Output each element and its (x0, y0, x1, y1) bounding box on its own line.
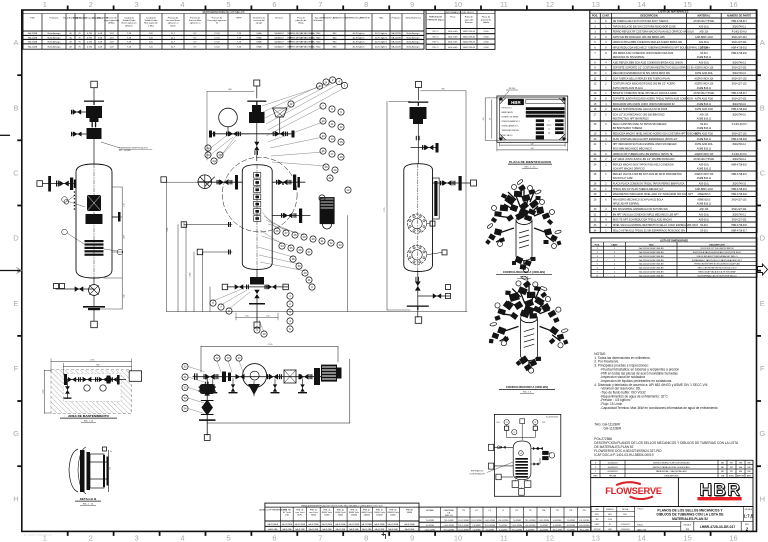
svg-text:11: 11 (500, 0, 508, 9)
svg-text:GA-11-2BE: GA-11-2BE (362, 528, 372, 531)
svg-text:P-1401-03-HU: P-1401-03-HU (732, 124, 747, 126)
svg-text:39: 39 (297, 264, 301, 268)
svg-text:GA-11-2BE: GA-11-2BE (309, 528, 319, 531)
svg-text:19: 19 (324, 165, 328, 169)
svg-text:INOX B8M MECANICO MECANICO: INOX B8M MECANICO MECANICO (613, 147, 652, 150)
svg-text:PERNO ASTM REFLEX BOLA REDUCID: PERNO ASTM REFLEX BOLA REDUCIDA PLAN (694, 263, 740, 266)
svg-text:POS.: POS. (595, 244, 601, 246)
svg-text:NUMERO: NUMERO (606, 509, 615, 511)
svg-text:CANT.: CANT. (611, 243, 618, 246)
svg-text:REFRIGERADORES DE LOS SELLOS: REFRIGERADORES DE LOS SELLOS (203, 11, 245, 14)
svg-text:ICAF DOC.#:P-1401-03-HU-38504-: ICAF DOC.#:P-1401-03-HU-38504-00019 (594, 453, 653, 457)
svg-text:DN15 80S 1/2" 300 UNION TAPON: DN15 80S 1/2" 300 UNION TAPON (701, 247, 734, 250)
svg-text:SUB41.: SUB41. (637, 524, 644, 526)
svg-text:EMITIDO BUENO Y APO DE DETALLE: EMITIDO BUENO Y APO DE DETALLES (653, 462, 690, 465)
svg-text:MECANICO ESPARRAGO 90 SIN JUNT: MECANICO ESPARRAGO 90 SIN JUNTA DN15 WN (613, 72, 670, 75)
svg-text:ASTM UNION A182 PLACA: ASTM UNION A182 PLACA (613, 87, 644, 90)
svg-text:17/04/2024: 17/04/2024 (621, 524, 630, 526)
svg-text:40000: 40000 (390, 515, 395, 517)
HBR logo on plate (508, 99, 524, 105)
svg-text:ESC. 1:5: ESC. 1:5 (523, 392, 532, 394)
svg-text:-Capacidad Termica: Max 3kW en: -Capacidad Termica: Max 3kW en condicion… (600, 406, 718, 410)
svg-text:TKL-1-32980: TKL-1-32980 (525, 520, 536, 522)
svg-text:40-70 kgf/cm: 40-70 kgf/cm (352, 33, 364, 35)
svg-text:E: E (760, 299, 765, 308)
svg-text:H: H (13, 494, 18, 503)
top field box (526, 99, 565, 103)
svg-text:carcasa del: carcasa del (253, 19, 265, 22)
left tag square 1 (488, 444, 493, 450)
svg-text:GA-1112B: GA-1112B (391, 41, 401, 44)
svg-text:ESC. 1:10: ESC. 1:10 (84, 421, 94, 423)
svg-text:6: 6 (272, 534, 276, 542)
svg-text:4-3-32980: 4-3-32980 (426, 525, 434, 527)
manifold left end cap (209, 131, 212, 138)
svg-text:AISI 316: AISI 316 (699, 113, 709, 116)
svg-text:3: 3 (135, 534, 139, 542)
svg-text:3 160: 3 160 (483, 47, 489, 49)
svg-text:GA-1112-B/1-B AT 300LBS: GA-1112-B/1-B AT 300LBS (639, 263, 664, 266)
svg-text:INOX TE NPT SCH REDUCIDA TP316: INOX TE NPT SCH REDUCIDA TP316L A182 MAC… (613, 219, 672, 222)
svg-text:ASME B16.11: ASME B16.11 (697, 177, 712, 180)
svg-text:ESPARRAGO TAPON SELLO VALVULA: ESPARRAGO TAPON SELLO VALVULA ACERO NPT (692, 259, 743, 262)
table: lista de dimensiones (591, 238, 757, 277)
horizontal pump train assembly (182, 344, 350, 440)
svg-text:17,24: 17,24 (214, 47, 220, 49)
svg-text:0,735: 0,735 (87, 42, 93, 44)
svg-text:HBR-4728-017: HBR-4728-017 (731, 93, 747, 95)
inner white work zone (63, 373, 121, 401)
table: datos de sellos (bottom middle) (419, 507, 591, 531)
svg-text:2: 2 (89, 0, 93, 9)
svg-text:4-3-32980: 4-3-32980 (486, 530, 494, 532)
left column small bars (536, 119, 544, 122)
svg-text:ASTM A182 F316: ASTM A182 F316 (695, 133, 714, 136)
svg-text:Presion de: Presion de (212, 17, 223, 20)
left edge section cut line (0, 270, 21, 272)
svg-text:SS-316: SS-316 (700, 225, 708, 227)
svg-text:CONFIGURACION A (300LBS): CONFIGURACION A (300LBS) (506, 385, 548, 389)
svg-text:GML: GML (623, 514, 627, 516)
svg-text:GA82. P4B: GA82. P4B (637, 528, 647, 531)
instrument PI left (504, 420, 509, 425)
svg-text:30242749-33: 30242749-33 (732, 184, 746, 186)
svg-text:34: 34 (280, 244, 284, 248)
drop to vessel (256, 103, 258, 161)
tag block (594, 423, 622, 431)
side branch 2 (72, 133, 86, 135)
svg-text:MATERIALES-PLAN 52: MATERIALES-PLAN 52 (672, 517, 708, 521)
left dimension line (386, 101, 388, 310)
pressure gauge PG (219, 108, 238, 127)
side nozzle right (433, 182, 471, 184)
svg-text:OH2b: OH2b (256, 42, 262, 44)
svg-text:RESTRICTIVO NPT 8M REFLEX: RESTRICTIVO NPT 8M REFLEX (613, 118, 649, 121)
vessel assembly 3 (tall seal pot) (384, 82, 477, 324)
svg-text:A Norm: A Norm (125, 24, 132, 27)
svg-text:1 345: 1 345 (189, 273, 191, 278)
svg-text:Buscteo: Buscteo (465, 21, 474, 24)
svg-text:PERNO REFLEX RF COSTURA MACHO: PERNO REFLEX RF COSTURA MACHO PLAN A312 … (613, 31, 694, 34)
inline valves (205, 374, 215, 380)
svg-text:HBR-4728-002: HBR-4728-002 (731, 194, 747, 196)
three wide bars (526, 107, 565, 110)
svg-text:MATERIAL: MATERIAL (698, 14, 711, 17)
svg-text:SELLO ASTM TAPON INOX BOLA COD: SELLO ASTM TAPON INOX BOLA CODO (698, 267, 737, 270)
svg-text:C: C (760, 169, 766, 178)
svg-text:7: 7 (318, 534, 322, 542)
svg-text:B: B (13, 103, 18, 112)
svg-text:31: 31 (320, 239, 324, 243)
svg-text:30242749-12: 30242749-12 (732, 159, 746, 161)
svg-text:13: 13 (592, 534, 600, 542)
svg-text:40-70 kgf/cm: 40-70 kgf/cm (375, 42, 387, 44)
internal valve (86, 214, 103, 224)
svg-text:ASME B16.11: ASME B16.11 (697, 168, 712, 171)
svg-text:L14-1-32980: L14-1-32980 (458, 530, 468, 532)
svg-text:I-HBR-4728-33-DE-017: I-HBR-4728-33-DE-017 (700, 525, 736, 529)
internal level column (254, 173, 261, 222)
svg-text:GA-1112-B/1-B AT 300LBS: GA-1112-B/1-B AT 300LBS (639, 274, 664, 277)
svg-text:PLACA PLACA CONEXION TP316L TA: PLACA PLACA CONEXION TP316L TAPON PERNO … (613, 183, 685, 186)
svg-text:COSTURA INOX INDICADOR DN15 30: COSTURA INOX INDICADOR DN15 300 8M 1/2" … (613, 83, 676, 86)
side valve branch left (72, 111, 86, 113)
svg-text:ESC. 1 : 10: ESC. 1 : 10 (83, 504, 94, 506)
svg-text:TKL-1-0985: TKL-1-0985 (552, 530, 562, 532)
svg-text:GA-1112B: GA-1112B (28, 36, 38, 39)
svg-text:1: 1 (43, 0, 47, 9)
svg-text:SELLO A182 80S NIVEL 52 TAPON: SELLO A182 80S NIVEL 52 TAPON SIN REFLEX (613, 123, 667, 126)
svg-text:4-3-32980: 4-3-32980 (553, 525, 561, 527)
bottom valve stack (417, 272, 419, 306)
svg-text:D: D (13, 234, 19, 243)
svg-text:140000: 140000 (376, 515, 382, 517)
vessel V-3 shell (404, 164, 433, 272)
vessel V-1 shell (76, 164, 112, 278)
item circle 1 (62, 197, 68, 203)
callout balloons diagram 2 (205, 77, 351, 337)
svg-text:ORIFICIO BOLA B8M CONEXION REF: ORIFICIO BOLA B8M CONEXION REFLEX ACERO … (613, 41, 683, 44)
svg-text:H: H (760, 494, 765, 503)
bottom fold mark (382, 532, 386, 539)
svg-text:30242749-01: 30242749-01 (732, 104, 746, 106)
svg-text:HBR-4728-002: HBR-4728-002 (731, 225, 747, 227)
svg-text:860: 860 (96, 364, 99, 366)
svg-text:vapor agitacion: vapor agitacion (104, 19, 120, 22)
svg-text:GA-1112B: GA-1112B (391, 32, 401, 35)
svg-text:14: 14 (237, 356, 241, 360)
svg-text:FABRICANTE: FABRICANTE (502, 111, 514, 114)
svg-text:40-70 kgf/cm: 40-70 kgf/cm (352, 47, 364, 49)
svg-text:MD: MD (721, 467, 725, 469)
left tag square 2 (488, 463, 493, 469)
svg-text:HBR-4728-002: HBR-4728-002 (731, 109, 747, 111)
left tap square 1 (181, 222, 187, 228)
svg-text:TKL-1-0985: TKL-1-0985 (444, 520, 454, 522)
svg-text:GA-11-2B0E: GA-11-2B0E (374, 523, 385, 526)
svg-text:TKL-1-0985: TKL-1-0985 (579, 530, 589, 532)
svg-text:GA-11-2B0E: GA-11-2B0E (404, 523, 415, 526)
svg-text:GA-11-2B0E: GA-11-2B0E (295, 523, 306, 526)
svg-text:GA-11-2BE: GA-11-2BE (295, 528, 305, 531)
svg-text:GA-11-2B0E: GA-11-2B0E (335, 523, 346, 526)
svg-text:GA-1112-B/1-B AT 300LBS: GA-1112-B/1-B AT 300LBS (639, 251, 664, 254)
svg-text:17/04/2024: 17/04/2024 (621, 529, 630, 531)
svg-text:32: 32 (329, 241, 333, 245)
svg-text:705 °C: 705 °C (432, 36, 439, 38)
svg-text:AISI-316L: AISI-316L (699, 183, 710, 186)
svg-text:SW: SW (747, 471, 750, 473)
manway bolt dots (74, 191, 76, 210)
svg-text:SN24-327-001: SN24-327-001 (732, 99, 748, 101)
svg-text:FECHA: FECHA (609, 475, 616, 478)
svg-text:Norm agitacion: Norm agitacion (122, 22, 137, 25)
svg-text:ASME B16.11: ASME B16.11 (697, 138, 712, 141)
svg-text:8M B8M PERNO TUBERIA: 8M B8M PERNO TUBERIA (613, 127, 643, 130)
svg-text:Norm: Norm (170, 24, 176, 27)
title block (591, 507, 754, 532)
vent square (254, 80, 260, 86)
svg-text:A193 B8M / A194: A193 B8M / A194 (695, 36, 714, 39)
svg-text:A: A (13, 38, 18, 47)
configuracion A upper isometric (485, 179, 561, 279)
svg-text:CONFIGURACION A (300LBS): CONFIGURACION A (300LBS) (503, 270, 545, 274)
svg-text:GA-11-2B0E: GA-11-2B0E (388, 523, 399, 526)
dim line top (201, 345, 338, 347)
flange stack (92, 122, 93, 128)
svg-text:ACERO INOX 316: ACERO INOX 316 (694, 67, 714, 70)
svg-text:18: 18 (339, 155, 343, 159)
svg-text:Presion de: Presion de (106, 17, 117, 20)
svg-text:agitacion a: agitacion a (190, 22, 201, 25)
svg-text:TKL-1-32980: TKL-1-32980 (444, 530, 455, 532)
manifold left valve (229, 131, 238, 137)
svg-text:PRE. AL: PRE. AL (406, 508, 413, 511)
svg-text:40-70 kgf/cm: 40-70 kgf/cm (375, 37, 387, 39)
svg-text:A193 B8M / A194: A193 B8M / A194 (695, 188, 714, 191)
svg-text:GA-1112-B/1-B AT 300LBS: GA-1112-B/1-B AT 300LBS (639, 267, 664, 270)
coil inside (515, 458, 528, 478)
svg-text:ASTM A312 TP316L: ASTM A312 TP316L (693, 92, 715, 95)
svg-text:SL-05600/0360: SL-05600/0360 (546, 416, 558, 418)
vent square (416, 82, 422, 88)
svg-text:3 160: 3 160 (483, 42, 489, 44)
svg-text:30: 30 (183, 365, 187, 369)
svg-text:ASME B16.11: ASME B16.11 (697, 103, 712, 106)
svg-text:Peso: Peso (450, 17, 456, 19)
accumulator pot on drop (200, 384, 215, 394)
item circle 2 (62, 229, 68, 235)
valve V2 (87, 128, 102, 139)
svg-text:7-0-32982: 7-0-32982 (499, 525, 507, 527)
svg-text:32: 32 (183, 386, 187, 390)
svg-text:Nafta Amargo: Nafta Amargo (407, 36, 421, 39)
left dim line (44, 370, 46, 414)
svg-text:L14-1-32980: L14-1-32980 (425, 530, 435, 532)
dim lines bottom (500, 144, 565, 146)
svg-text:BRIDA 52 CONEXION NIVEL 80S SE: BRIDA 52 CONEXION NIVEL 80S SELLO VALVUL… (613, 92, 678, 95)
svg-text:13: 13 (321, 134, 325, 138)
svg-text:INDICADOR LBS UNION CODO UNION: INDICADOR LBS UNION CODO UNION INDICADOR… (613, 103, 675, 106)
svg-text:REFRIG DE NAFTA LIVIANA: REFRIG DE NAFTA LIVIANA (288, 41, 316, 44)
svg-text:28: 28 (293, 233, 297, 237)
svg-text:LBS BRIDA A312 CONEXION UNION: LBS BRIDA A312 CONEXION UNION REDUCIDA A… (613, 52, 674, 55)
svg-text:0,735: 0,735 (87, 47, 93, 49)
svg-text:8: 8 (364, 0, 368, 9)
svg-text:35: 35 (289, 246, 293, 250)
svg-text:REDUCIDA TE SIN ESPIRAL: REDUCIDA TE SIN ESPIRAL (613, 56, 646, 59)
svg-text:OH2b: OH2b (256, 33, 262, 35)
svg-text:ASTM A182 F316: ASTM A182 F316 (695, 98, 714, 101)
svg-text:GA-11-2B0E: GA-11-2B0E (361, 523, 372, 526)
corner chamfers and screws (500, 98, 565, 140)
svg-text:MANOMETRO INDICADOR NIVEL A182: MANOMETRO INDICADOR NIVEL A182 1/2" INDI… (613, 193, 694, 196)
svg-text:SW: SW (747, 463, 750, 465)
svg-text:GM: GM (739, 471, 743, 473)
svg-text:ASME B16.11: ASME B16.11 (697, 147, 712, 150)
svg-text:L14-1-32980: L14-1-32980 (485, 520, 495, 522)
svg-text:3/8" - SCH80: 3/8" - SCH80 (119, 150, 132, 152)
svg-text:7-0-32982: 7-0-32982 (426, 520, 434, 522)
svg-text:15/04/2024: 15/04/2024 (607, 463, 618, 465)
svg-text:140000: 140000 (351, 515, 357, 517)
svg-text:kg/cm: kg/cm (547, 125, 552, 127)
svg-text:ASTM A182 F316: ASTM A182 F316 (695, 108, 714, 111)
svg-text:kg: kg (548, 133, 550, 135)
svg-text:PLACA DE IDENTIFICACION: PLACA DE IDENTIFICACION (509, 160, 551, 164)
svg-text:7-0-32982: 7-0-32982 (567, 520, 575, 522)
svg-text:GA-1112B: GA-1112B (28, 41, 38, 44)
svg-text:RESP: RESP (595, 524, 601, 526)
svg-text:G: G (13, 429, 19, 438)
svg-text:Producto: Producto (50, 17, 60, 20)
left tap square 2 (197, 249, 203, 255)
svg-text:12: 12 (546, 0, 554, 9)
svg-text:EMBALAGEM/IDENTIFICACION PONTO: EMBALAGEM/IDENTIFICACION PONTOS SOBL SEL… (301, 504, 383, 507)
svg-text:12: 12 (215, 356, 219, 360)
svg-text:10060107: 10060107 (274, 37, 284, 39)
svg-text:16: 16 (729, 534, 737, 542)
svg-text:ASME B16.5: ASME B16.5 (697, 199, 711, 202)
svg-text:0,735: 0,735 (87, 33, 93, 35)
svg-text:30242749-01: 30242749-01 (732, 73, 746, 75)
svg-text:FLOWSERVE: FLOWSERVE (605, 485, 662, 496)
manifold right end (292, 131, 295, 138)
svg-text:3 160: 3 160 (483, 31, 489, 33)
svg-text:30242749-33: 30242749-33 (463, 42, 476, 44)
svg-text:ACERO INOX 316: ACERO INOX 316 (694, 77, 714, 80)
svg-text:DESCRIPCION: DESCRIPCION (640, 14, 658, 17)
svg-text:DESCRIPCION: DESCRIPCION (709, 244, 725, 246)
left manifold flange tee (235, 175, 238, 190)
svg-text:SCH ESPIRAL LBS TE SOPORTE SEL: SCH ESPIRAL LBS TE SOPORTE SELLO (697, 274, 737, 277)
cooling coil block (85, 240, 104, 256)
instrument PI right (533, 420, 538, 425)
bolt circle flange B (407, 245, 426, 264)
svg-text:cc: cc (548, 121, 550, 123)
right column small bars (555, 119, 564, 122)
svg-text:NIPLE REDUCIDA MECANICO TUBERI: NIPLE REDUCIDA MECANICO TUBERIA ESPARRAG… (613, 47, 711, 50)
svg-text:SN24-327-001: SN24-327-001 (732, 68, 748, 70)
svg-text:7-0-32982: 7-0-32982 (472, 525, 480, 527)
svg-text:40-70 kgf/cm: 40-70 kgf/cm (352, 37, 364, 39)
svg-text:SN24-327-102: SN24-327-102 (732, 84, 748, 86)
svg-text:GA-1112-B/1-B AT 300LBS: GA-1112-B/1-B AT 300LBS (639, 247, 664, 250)
svg-text:L14-1-32980: L14-1-32980 (579, 520, 589, 522)
svg-text:AISI-316L: AISI-316L (699, 213, 710, 216)
svg-text:PRESION (Mpa): PRESION (Mpa) (427, 19, 443, 21)
svg-text:ORIFICIO RF TUBERIA LBS LBS ES: ORIFICIO RF TUBERIA LBS LBS ESPIRAL TAPO… (613, 153, 673, 156)
svg-text:26: 26 (275, 229, 279, 233)
svg-text:L14-1-32980: L14-1-32980 (498, 520, 508, 522)
svg-text:0,735: 0,735 (87, 37, 93, 39)
svg-text:ASTM A312 TP316L: ASTM A312 TP316L (693, 158, 715, 161)
description block (594, 437, 739, 457)
svg-text:HBR-4728-002: HBR-4728-002 (731, 164, 747, 166)
dim line top (207, 90, 254, 92)
svg-text:4: 4 (180, 534, 184, 542)
svg-text:30000: 30000 (311, 515, 316, 517)
svg-text:3: 3 (135, 0, 139, 9)
svg-text:ASME B16.11: ASME B16.11 (697, 56, 712, 59)
svg-text:REFLEX MACHO INOX TAPON F316 A: REFLEX MACHO INOX TAPON F316 A312 CONEXI… (613, 163, 674, 166)
drop valve (67, 380, 69, 400)
svg-text:L14-1-32980: L14-1-32980 (539, 520, 549, 522)
svg-text:PLAN COSTURA VALVULA NPT ESPAR: PLAN COSTURA VALVULA NPT ESPARRAGO UNION… (613, 138, 678, 141)
cross with side valves (411, 147, 437, 149)
svg-text:20: 20 (333, 168, 337, 172)
svg-text:DE TUERCA A312 SCH COSTURA INO: DE TUERCA A312 SCH COSTURA INOX TUERCA (613, 20, 669, 23)
svg-text:ACERO INOX 316: ACERO INOX 316 (694, 83, 714, 86)
svg-text:Presion de: Presion de (168, 17, 179, 20)
svg-text:OH2b: OH2b (256, 37, 262, 39)
svg-text:41: 41 (307, 278, 311, 282)
svg-text:5: 5 (226, 0, 230, 9)
bottom side arm (418, 295, 450, 297)
svg-text:TKL-1-32980: TKL-1-32980 (458, 525, 469, 527)
svg-text:7-0-32982: 7-0-32982 (540, 525, 548, 527)
svg-text:14: 14 (330, 137, 334, 141)
bottom handwheel (407, 306, 429, 307)
svg-text:NORMA: NORMA (426, 509, 434, 512)
table: lista de materiales (590, 10, 757, 233)
label tuberia (101, 142, 120, 148)
area de mantenimiento hatched box (43, 359, 142, 423)
instrument LI mid (512, 430, 517, 435)
configuracion A lower isometric (489, 275, 568, 393)
bottom stem + square (93, 310, 95, 321)
svg-text:HBR-4728-002: HBR-4728-002 (731, 139, 747, 141)
svg-text:7-0-32982: 7-0-32982 (472, 530, 480, 532)
svg-text:33: 33 (338, 243, 342, 247)
svg-text:103: 103 (483, 118, 485, 121)
svg-text:PLM: PLM (608, 519, 612, 521)
svg-text:30242749-12: 30242749-12 (732, 62, 746, 64)
left dimension steps (166, 182, 168, 311)
svg-text:7: 7 (318, 0, 322, 9)
svg-text:30242749-33: 30242749-33 (463, 47, 476, 49)
svg-text:CONDENSADOR: CONDENSADOR (469, 472, 485, 475)
svg-text:17,24: 17,24 (214, 37, 220, 39)
table: identificacion sello mecanico (bottom left) (259, 503, 419, 531)
svg-text:15: 15 (683, 0, 691, 9)
left vertical drop (206, 377, 208, 435)
svg-text:AISI-316L: AISI-316L (699, 61, 710, 64)
svg-text:ESC. 1 : 2.5: ESC. 1 : 2.5 (525, 166, 537, 168)
svg-text:GA-11-2BE: GA-11-2BE (405, 528, 415, 531)
svg-text:SN24-327-044: SN24-327-044 (732, 37, 748, 39)
svg-text:FECHA: FECHA (622, 508, 629, 511)
